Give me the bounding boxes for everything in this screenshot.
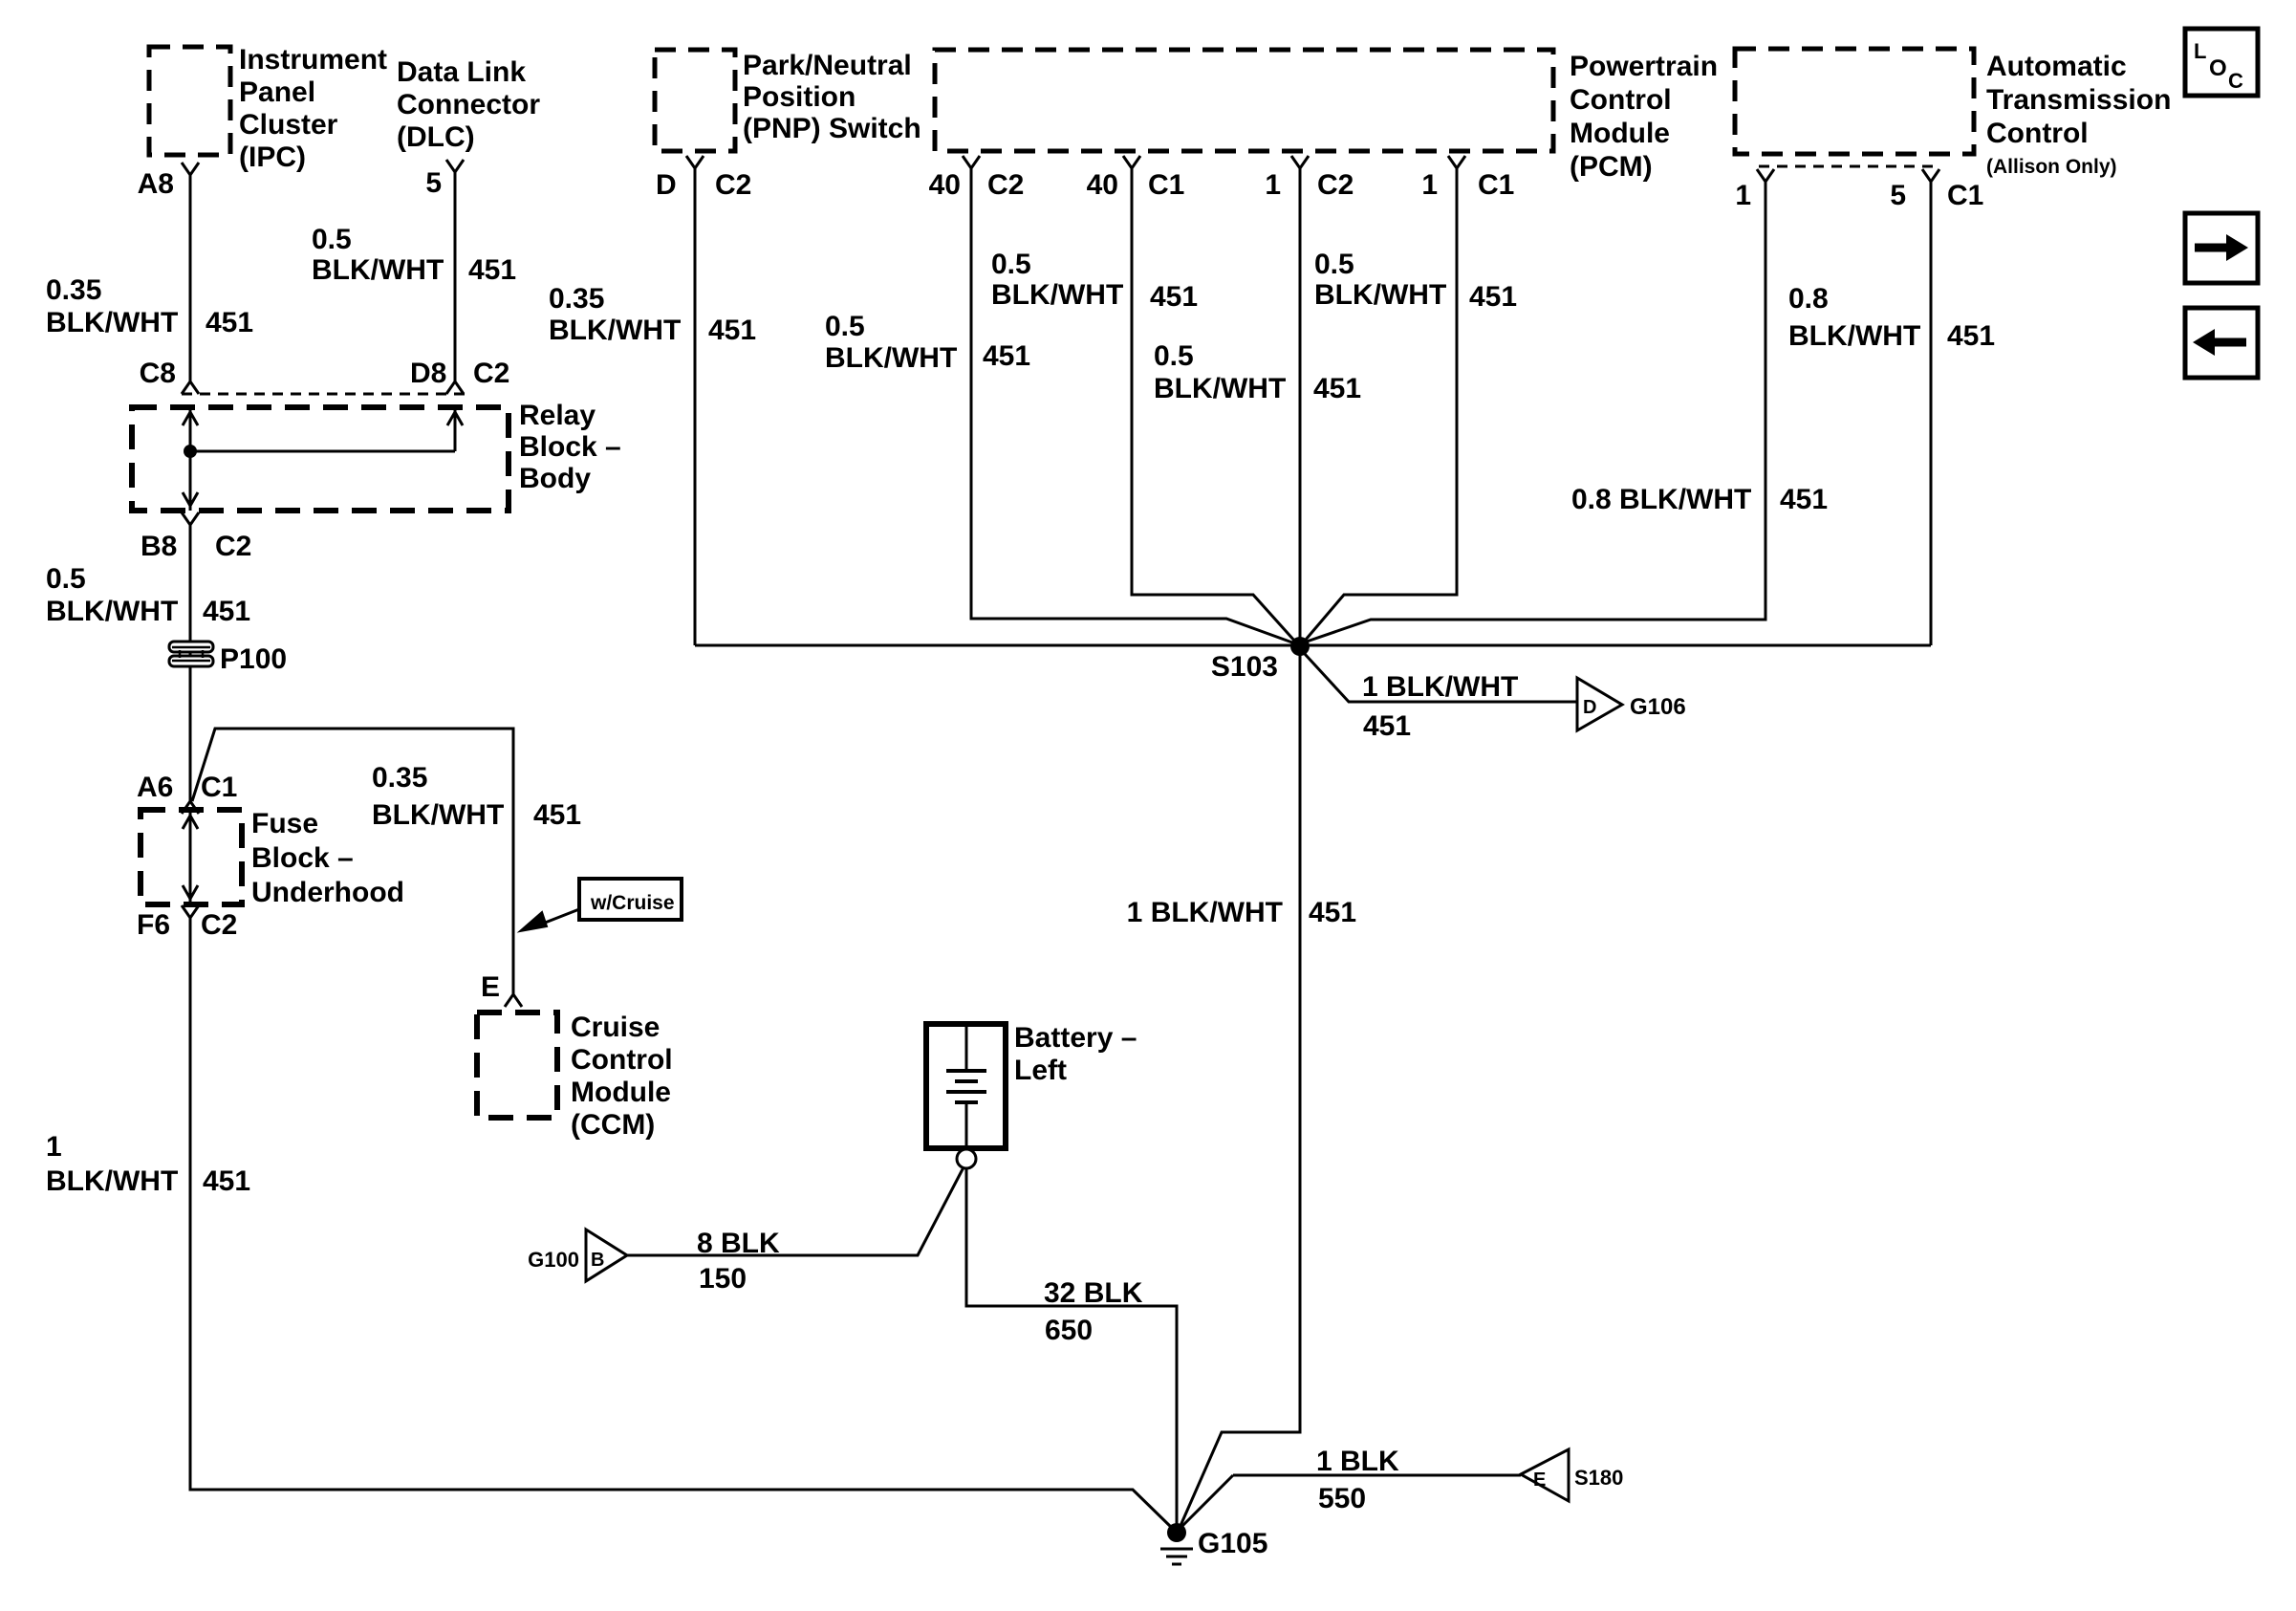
svg-text:Body: Body — [519, 463, 591, 494]
svg-text:Cluster: Cluster — [239, 109, 338, 141]
svg-text:451: 451 — [1947, 320, 1995, 352]
svg-text:Cruise: Cruise — [571, 1012, 660, 1043]
svg-text:E: E — [481, 971, 500, 1003]
svg-text:(Allison Only): (Allison Only) — [1986, 156, 2117, 178]
svg-text:Module: Module — [571, 1077, 671, 1108]
svg-text:1 BLK/WHT: 1 BLK/WHT — [1362, 671, 1518, 703]
svg-text:BLK/WHT: BLK/WHT — [372, 799, 504, 831]
svg-text:D: D — [656, 169, 677, 201]
svg-text:C8: C8 — [140, 358, 176, 389]
svg-text:Battery –: Battery – — [1014, 1022, 1137, 1054]
svg-text:C2: C2 — [987, 169, 1024, 201]
svg-text:150: 150 — [699, 1263, 747, 1295]
svg-text:C1: C1 — [1478, 169, 1514, 201]
svg-text:451: 451 — [533, 799, 581, 831]
svg-text:0.5: 0.5 — [1314, 249, 1354, 280]
svg-text:BLK/WHT: BLK/WHT — [1314, 279, 1446, 311]
svg-text:w/Cruise: w/Cruise — [590, 892, 675, 914]
svg-text:451: 451 — [468, 254, 516, 286]
svg-text:0.5: 0.5 — [312, 224, 352, 255]
svg-text:S180: S180 — [1574, 1466, 1623, 1490]
svg-text:8 BLK: 8 BLK — [697, 1228, 780, 1259]
svg-text:0.5: 0.5 — [825, 311, 865, 342]
svg-text:S103: S103 — [1211, 651, 1278, 683]
svg-text:C1: C1 — [1148, 169, 1184, 201]
svg-text:Instrument: Instrument — [239, 44, 387, 76]
svg-text:1 BLK/WHT: 1 BLK/WHT — [1127, 897, 1283, 928]
svg-text:32 BLK: 32 BLK — [1044, 1277, 1143, 1309]
svg-text:C: C — [2228, 69, 2243, 93]
svg-text:C2: C2 — [201, 909, 237, 941]
svg-text:451: 451 — [1309, 897, 1356, 928]
svg-text:451: 451 — [1780, 484, 1828, 515]
svg-text:O: O — [2209, 55, 2227, 81]
svg-text:0.35: 0.35 — [372, 762, 427, 794]
svg-text:451: 451 — [983, 340, 1030, 372]
svg-text:(PNP) Switch: (PNP) Switch — [743, 113, 921, 144]
svg-text:C1: C1 — [1947, 180, 1983, 211]
svg-text:(CCM): (CCM) — [571, 1109, 655, 1141]
svg-text:Park/Neutral: Park/Neutral — [743, 50, 912, 81]
svg-text:BLK/WHT: BLK/WHT — [46, 307, 178, 338]
svg-text:C2: C2 — [715, 169, 751, 201]
svg-text:C1: C1 — [201, 772, 237, 803]
svg-text:451: 451 — [203, 1165, 250, 1197]
svg-text:0.5: 0.5 — [46, 563, 86, 595]
svg-text:0.8 BLK/WHT: 0.8 BLK/WHT — [1571, 484, 1751, 515]
svg-text:C2: C2 — [215, 531, 251, 562]
svg-text:Left: Left — [1014, 1055, 1067, 1086]
svg-text:Control: Control — [1986, 118, 2089, 149]
svg-text:(IPC): (IPC) — [239, 142, 306, 173]
svg-text:Powertrain: Powertrain — [1570, 51, 1718, 82]
svg-text:451: 451 — [708, 315, 756, 346]
svg-text:C2: C2 — [1317, 169, 1354, 201]
svg-text:BLK/WHT: BLK/WHT — [46, 1165, 178, 1197]
svg-text:1: 1 — [1421, 169, 1438, 201]
svg-text:BLK/WHT: BLK/WHT — [549, 315, 681, 346]
svg-text:L: L — [2194, 39, 2206, 63]
svg-text:G106: G106 — [1630, 694, 1686, 720]
svg-text:451: 451 — [1363, 710, 1411, 742]
svg-text:G100: G100 — [528, 1248, 579, 1272]
svg-text:BLK/WHT: BLK/WHT — [1154, 373, 1286, 404]
svg-text:Control: Control — [571, 1044, 673, 1076]
svg-text:A8: A8 — [138, 168, 174, 200]
svg-text:Connector: Connector — [397, 89, 540, 120]
svg-text:B8: B8 — [141, 531, 177, 562]
svg-text:BLK/WHT: BLK/WHT — [312, 254, 444, 286]
svg-text:1: 1 — [1735, 180, 1751, 211]
svg-text:5: 5 — [425, 167, 442, 199]
svg-text:Module: Module — [1570, 118, 1670, 149]
svg-text:650: 650 — [1045, 1315, 1093, 1346]
svg-text:F6: F6 — [137, 909, 170, 941]
svg-text:40: 40 — [1087, 169, 1118, 201]
svg-text:BLK/WHT: BLK/WHT — [46, 596, 178, 627]
svg-text:P100: P100 — [220, 643, 287, 675]
svg-text:D: D — [1583, 697, 1596, 718]
svg-text:0.5: 0.5 — [1154, 340, 1194, 372]
svg-text:451: 451 — [1313, 373, 1361, 404]
svg-text:451: 451 — [1469, 281, 1517, 313]
svg-text:Block –: Block – — [519, 431, 621, 463]
svg-text:451: 451 — [203, 596, 250, 627]
svg-text:Underhood: Underhood — [251, 877, 404, 908]
svg-text:A6: A6 — [137, 772, 173, 803]
svg-text:E: E — [1533, 1469, 1546, 1491]
svg-text:0.35: 0.35 — [46, 274, 101, 306]
svg-text:0.8: 0.8 — [1788, 283, 1829, 315]
svg-text:Relay: Relay — [519, 400, 596, 431]
svg-text:40: 40 — [929, 169, 961, 201]
svg-text:Automatic: Automatic — [1986, 51, 2127, 82]
svg-text:451: 451 — [1150, 281, 1198, 313]
svg-text:C2: C2 — [473, 358, 509, 389]
svg-text:5: 5 — [1890, 180, 1906, 211]
svg-text:Fuse: Fuse — [251, 808, 318, 839]
svg-text:(DLC): (DLC) — [397, 121, 475, 153]
svg-text:1: 1 — [1265, 169, 1281, 201]
svg-text:1: 1 — [46, 1131, 62, 1163]
svg-text:550: 550 — [1318, 1483, 1366, 1514]
svg-text:G105: G105 — [1198, 1528, 1267, 1559]
svg-text:0.5: 0.5 — [991, 249, 1031, 280]
svg-text:451: 451 — [206, 307, 253, 338]
svg-text:BLK/WHT: BLK/WHT — [825, 342, 957, 374]
svg-text:BLK/WHT: BLK/WHT — [991, 279, 1123, 311]
svg-text:1 BLK: 1 BLK — [1316, 1446, 1399, 1477]
svg-text:Block –: Block – — [251, 842, 354, 874]
svg-text:(PCM): (PCM) — [1570, 151, 1653, 183]
svg-text:Panel: Panel — [239, 76, 315, 108]
svg-text:0.35: 0.35 — [549, 283, 604, 315]
svg-text:BLK/WHT: BLK/WHT — [1788, 320, 1920, 352]
svg-text:Control: Control — [1570, 84, 1672, 116]
svg-text:D8: D8 — [410, 358, 446, 389]
svg-text:Position: Position — [743, 81, 856, 113]
svg-text:B: B — [591, 1250, 604, 1271]
svg-text:Transmission: Transmission — [1986, 84, 2171, 116]
svg-text:Data Link: Data Link — [397, 56, 526, 88]
